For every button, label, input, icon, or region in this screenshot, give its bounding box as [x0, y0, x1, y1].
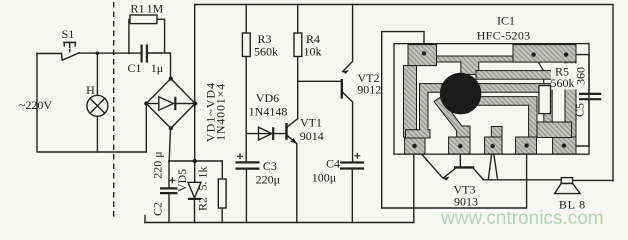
- svg-text:1N4148: 1N4148: [249, 105, 288, 119]
- svg-text:C2: C2: [151, 202, 165, 216]
- svg-text:9013: 9013: [454, 195, 478, 209]
- svg-text:10k: 10k: [304, 45, 322, 59]
- svg-text:1M: 1M: [147, 2, 164, 16]
- svg-text:9012: 9012: [357, 83, 381, 97]
- svg-text:www.cntronics.com: www.cntronics.com: [440, 208, 604, 229]
- svg-text:100μ: 100μ: [312, 171, 336, 185]
- svg-text:S1: S1: [62, 27, 75, 41]
- svg-text:5. 1k: 5. 1k: [196, 167, 210, 191]
- svg-text:VT1: VT1: [300, 116, 322, 130]
- svg-text:1μ: 1μ: [151, 61, 163, 75]
- svg-text:~220V: ~220V: [19, 98, 52, 112]
- svg-text:C3: C3: [263, 159, 277, 173]
- svg-text:C4: C4: [326, 156, 340, 170]
- svg-text:360: 360: [573, 67, 587, 85]
- svg-text:220 μ: 220 μ: [151, 151, 165, 178]
- svg-text:VD6: VD6: [256, 91, 279, 105]
- svg-text:1N4001×4: 1N4001×4: [214, 83, 228, 141]
- svg-text:HFC-5203: HFC-5203: [477, 29, 531, 43]
- svg-text:220μ: 220μ: [256, 173, 280, 187]
- svg-text:R2: R2: [196, 197, 210, 211]
- svg-text:560k: 560k: [254, 45, 278, 59]
- svg-text:9014: 9014: [300, 129, 324, 143]
- svg-text:VD5: VD5: [175, 169, 189, 192]
- svg-text:IC1: IC1: [497, 14, 515, 28]
- svg-text:C5: C5: [573, 103, 587, 117]
- svg-text:C1: C1: [127, 61, 141, 75]
- svg-text:R1: R1: [130, 2, 144, 16]
- svg-text:H: H: [86, 83, 95, 97]
- svg-text:560k: 560k: [551, 76, 575, 90]
